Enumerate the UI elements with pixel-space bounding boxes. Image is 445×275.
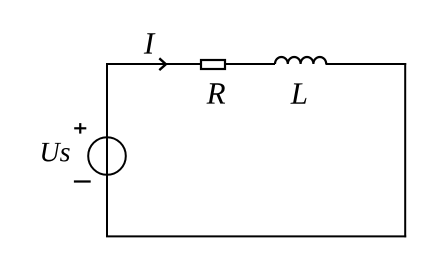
- label R: [207, 83, 226, 103]
- label Us: [42, 143, 70, 162]
- label I: [144, 33, 156, 53]
- wire top-middle segment: [225, 63, 275, 65]
- plus sign: [74, 127, 86, 129]
- wire top-left segment: [106, 63, 201, 65]
- wire top-right segment: [326, 63, 407, 65]
- minus sign: [74, 180, 91, 182]
- voltage source Us circle: [88, 137, 126, 175]
- label L: [290, 83, 306, 103]
- resistor R: [201, 60, 225, 69]
- current arrow: [159, 58, 166, 70]
- wire bottom branch: [106, 235, 406, 237]
- inductor L: [275, 57, 326, 64]
- wire left branch: [106, 64, 108, 236]
- wire right branch: [404, 63, 406, 237]
